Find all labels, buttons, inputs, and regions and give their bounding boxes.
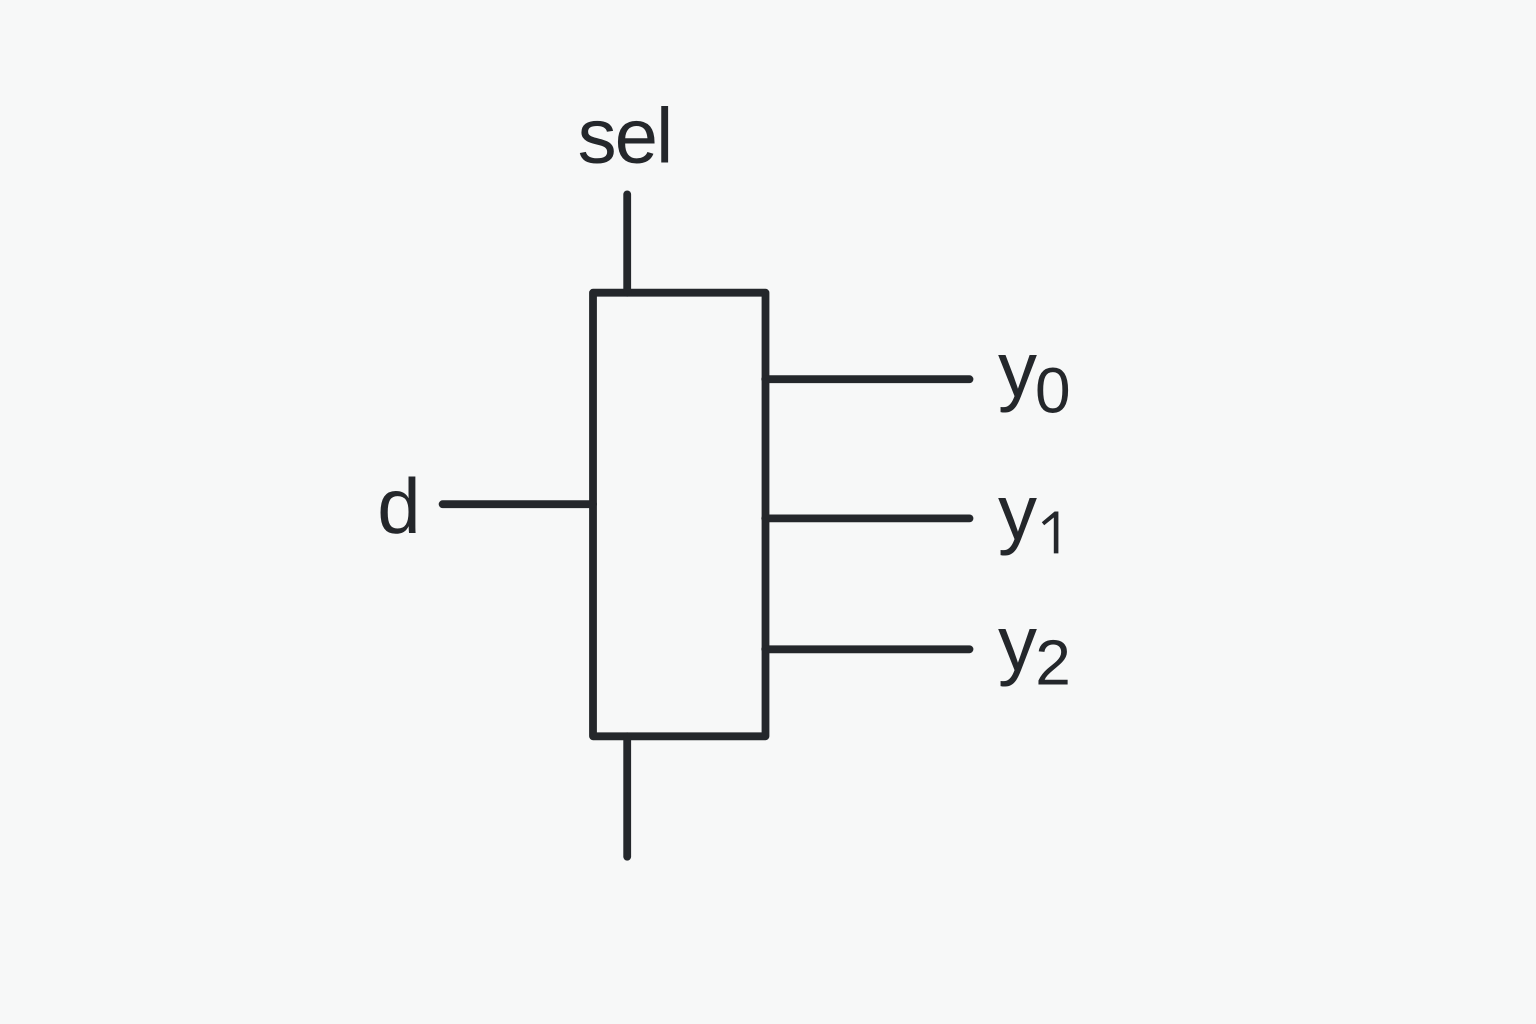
wire output y1: [765, 515, 969, 523]
svg-text:y: y: [998, 468, 1037, 556]
svg-text:d: d: [377, 462, 420, 550]
wire sel input stub: [623, 194, 631, 292]
demux block U1: [593, 293, 766, 737]
svg-text:y: y: [998, 599, 1037, 687]
svg-text:0: 0: [1035, 355, 1071, 427]
wire d input: [443, 500, 593, 508]
svg-text:sel: sel: [578, 91, 672, 179]
wire unconnected bottom stub: [623, 736, 631, 856]
svg-text:y: y: [998, 326, 1037, 414]
wire output y0: [765, 375, 969, 383]
svg-text:2: 2: [1035, 627, 1071, 699]
wire output y2: [765, 645, 969, 653]
